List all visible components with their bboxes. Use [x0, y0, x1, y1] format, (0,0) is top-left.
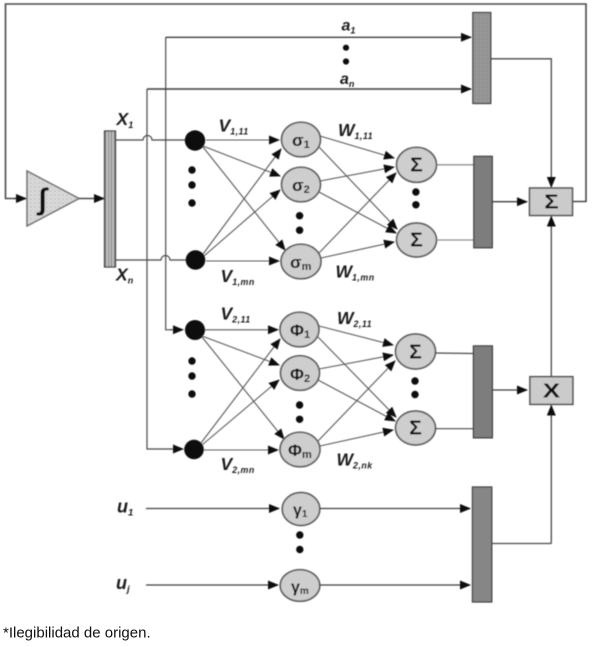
svg-text:an: an [340, 71, 355, 89]
svg-text:Σ: Σ [410, 230, 423, 251]
svg-text:W2,nk: W2,nk [337, 450, 374, 471]
svg-text:W1,mn: W1,mn [336, 262, 375, 283]
svg-text:Xn: Xn [115, 265, 134, 286]
svg-text:V1,mn: V1,mn [221, 266, 255, 287]
svg-text:Σ: Σ [544, 190, 558, 213]
svg-text:W2,11: W2,11 [337, 308, 372, 329]
svg-text:V2,11: V2,11 [221, 304, 251, 325]
svg-text:Σ: Σ [409, 342, 422, 363]
svg-text:Σ: Σ [409, 418, 422, 439]
svg-text:X1: X1 [116, 109, 134, 130]
svg-text:uj: uj [116, 573, 130, 595]
svg-text:V2,mn: V2,mn [221, 454, 255, 475]
svg-text:X: X [543, 379, 561, 401]
svg-text:W1,11: W1,11 [338, 120, 373, 141]
svg-text:Σ: Σ [410, 155, 423, 176]
svg-text:*Ilegibilidad de origen.: *Ilegibilidad de origen. [3, 625, 151, 642]
svg-text:V1,11: V1,11 [219, 116, 249, 137]
svg-text:u1: u1 [117, 497, 133, 519]
svg-text:a1: a1 [342, 18, 356, 36]
